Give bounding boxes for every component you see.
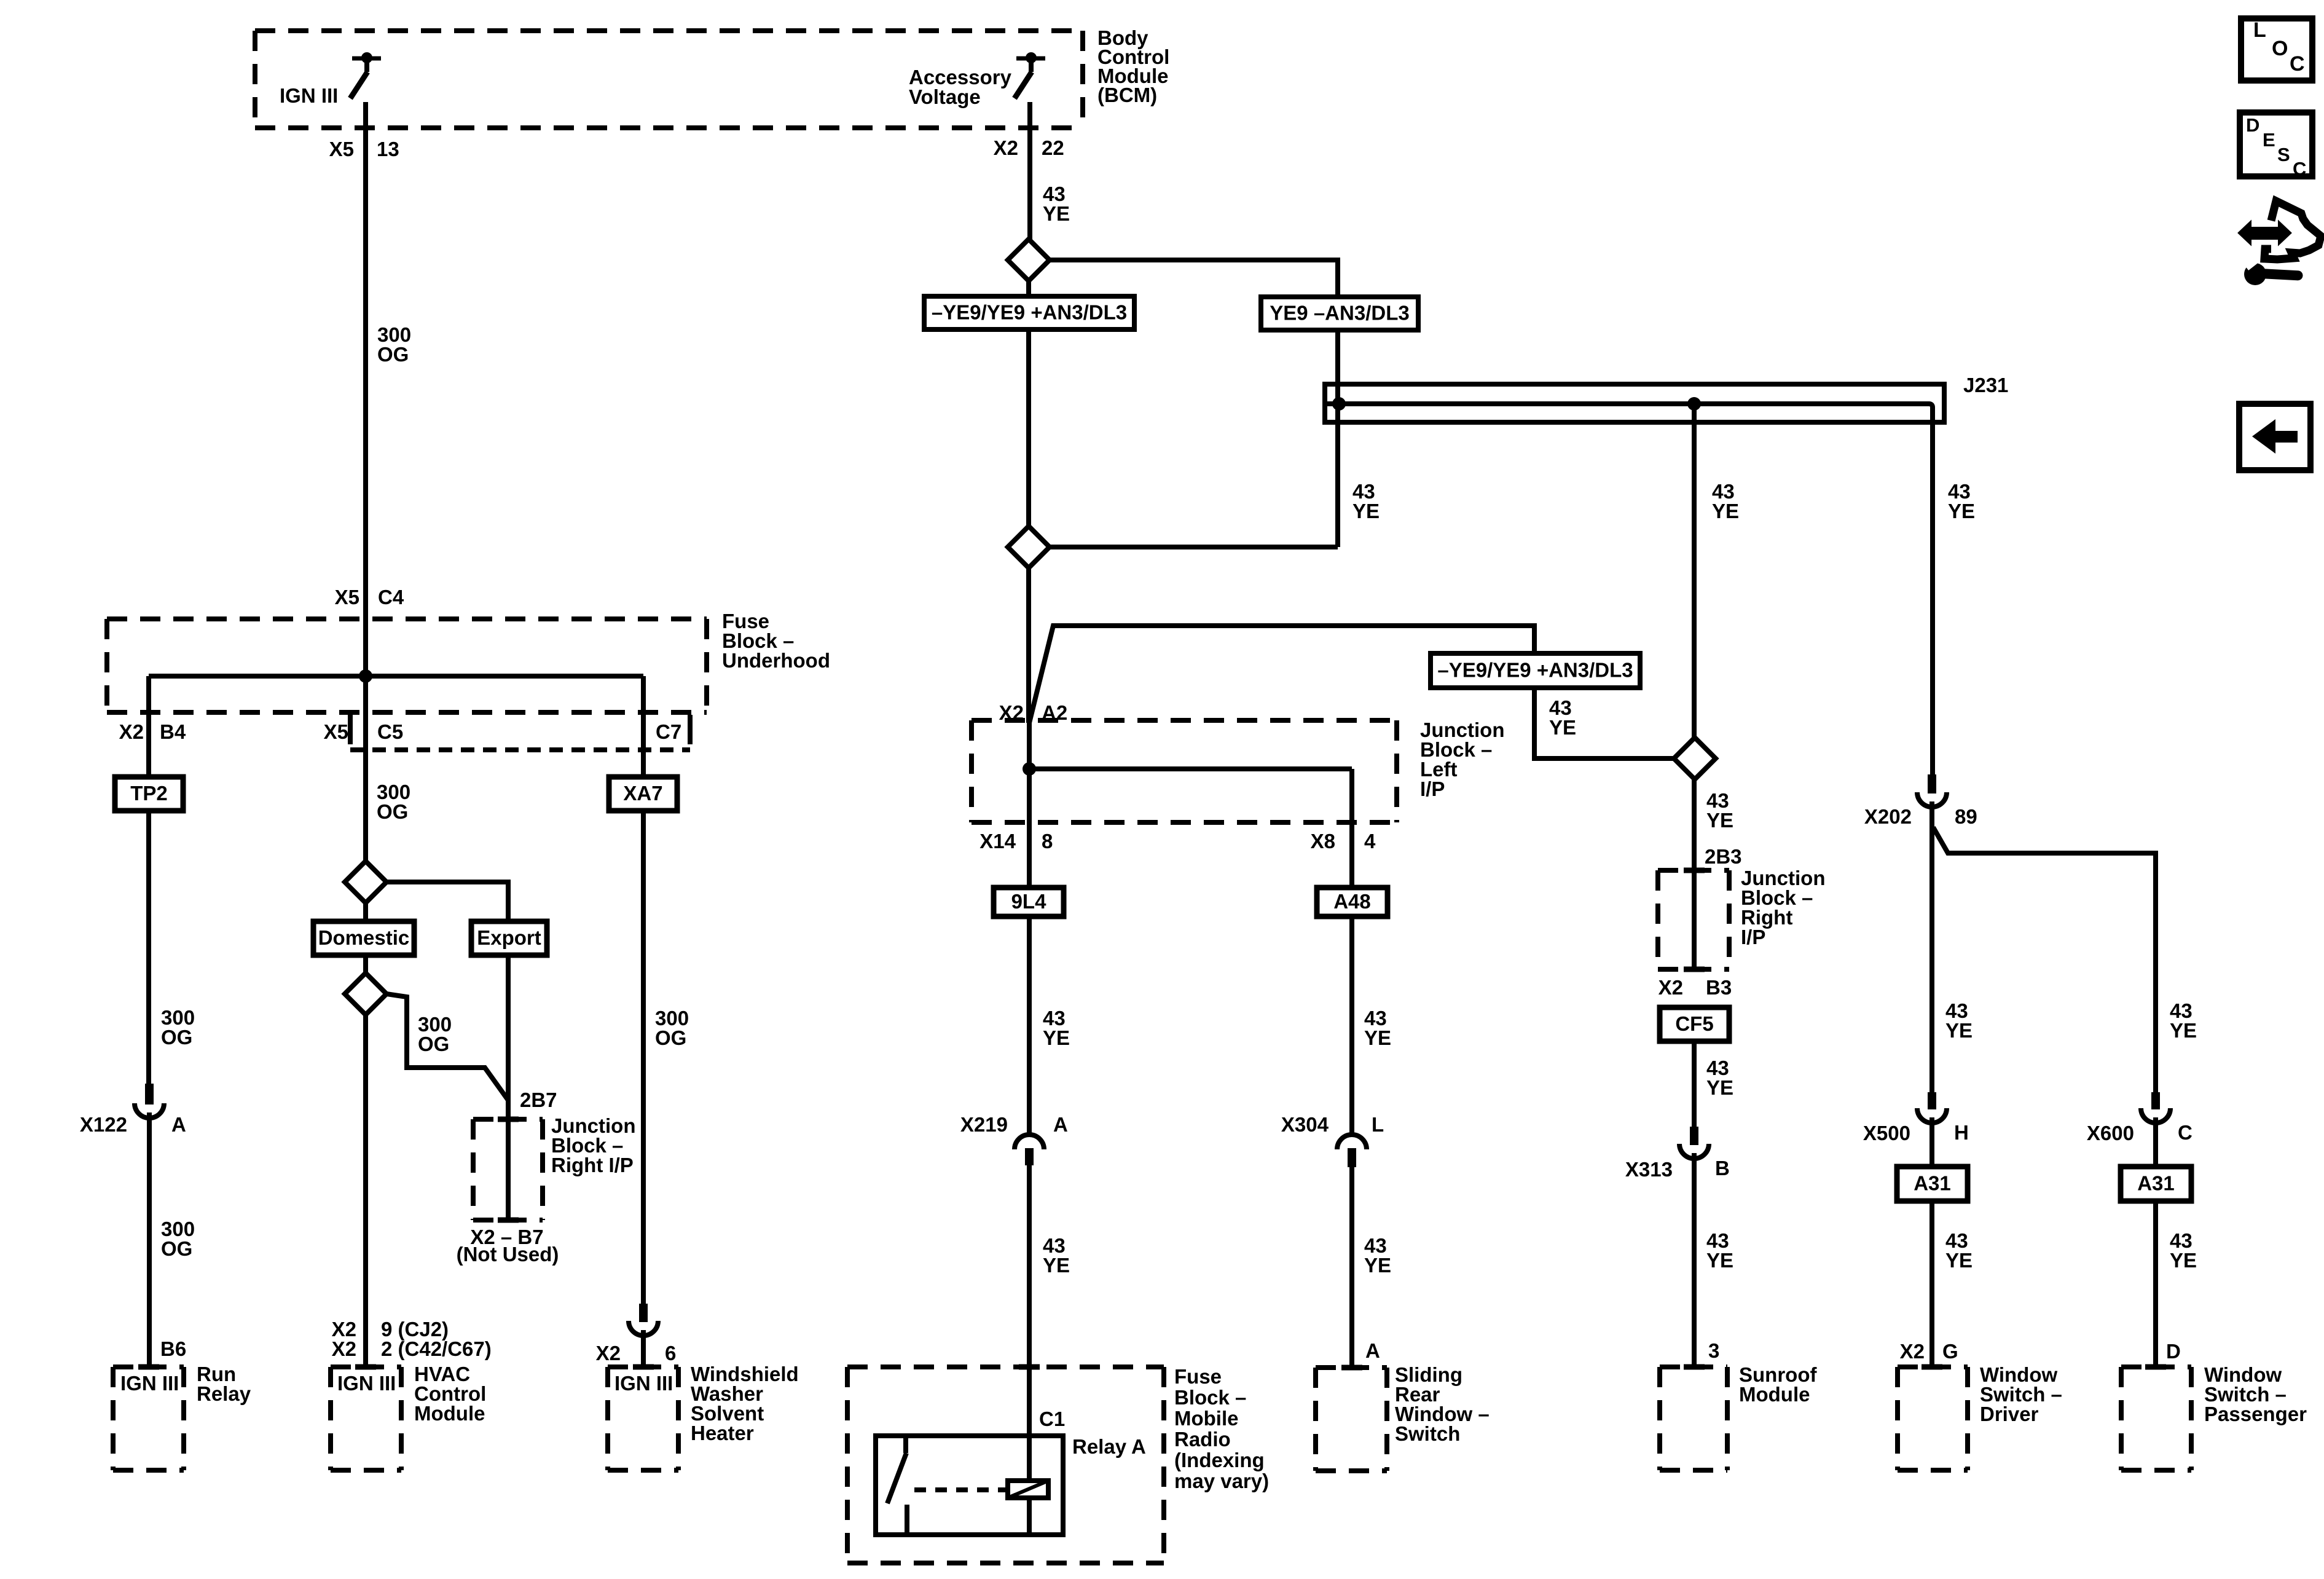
svg-text:YE: YE [2170,1249,2197,1272]
pin tick window switch passenger [2145,1364,2166,1370]
svg-text:B3: B3 [1706,976,1732,999]
svg-text:Switch: Switch [1395,1422,1460,1445]
relay A actuator dashed link [914,1487,1005,1492]
svg-text:Relay: Relay [197,1382,251,1405]
label Run Relay [197,1363,251,1405]
pin tick sunroof [1684,1364,1705,1370]
icon harness routing (double arrow, outline, wrench) [2239,201,2321,285]
svg-text:X219: X219 [960,1113,1008,1136]
wire X122 to Run Relay [147,1112,152,1367]
svg-text:2 (C42/C67): 2 (C42/C67) [381,1337,492,1360]
svg-text:A: A [1365,1339,1380,1362]
label Sliding Rear Window - Switch [1395,1363,1490,1445]
wire X219 to relay A 43 YE [1027,1165,1032,1436]
svg-text:CF5: CF5 [1675,1012,1713,1035]
svg-text:C7: C7 [656,720,681,743]
module box HVAC Control Module [331,1367,401,1470]
svg-text:Mobile: Mobile [1174,1407,1239,1430]
wire CF5 to X313 43 YE [1692,1041,1697,1128]
wire XA7 to X2-6 300 OG [641,811,646,1305]
module box Windshield Washer Solvent Heater [608,1367,678,1470]
fuse A31 (driver) [1897,1167,1968,1201]
svg-text:X2: X2 [596,1342,621,1364]
svg-text:D: D [2166,1340,2181,1363]
label Fuse Block - Underhood [722,610,830,672]
svg-text:X5: X5 [335,586,359,608]
svg-text:C5: C5 [377,720,403,743]
wire label 43 YE [1706,1229,1733,1272]
wire X202 to X500 43 YE [1929,801,1934,1094]
wire [1026,281,1031,296]
svg-text:IGN III: IGN III [337,1372,396,1395]
wire to diamond [1049,545,1338,549]
wire 9L4 to X219 43 YE [1027,916,1032,1135]
svg-text:YE: YE [1549,716,1576,739]
wire TP2 to X122 [146,811,151,1085]
svg-text:X304: X304 [1281,1113,1329,1136]
relay A coil [1008,1481,1048,1498]
label Junction Block - Left I/P [1420,719,1505,800]
svg-text:A: A [1053,1113,1068,1136]
inset box of Fuse Block (X5 C5/C7 section) [350,715,690,750]
svg-text:Module: Module [1739,1383,1810,1406]
connector X219 [1015,1135,1044,1165]
connector X202 [1917,774,1947,807]
svg-text:YE: YE [1712,500,1739,522]
svg-text:A31: A31 [1914,1172,1951,1195]
wire X202 branch to X600 43 YE [1933,827,2156,1094]
svg-text:OG: OG [377,800,408,823]
svg-text:13: 13 [377,138,399,160]
svg-text:A31: A31 [2137,1172,2175,1195]
option box -YE9/YE9 +AN3/DL3 [924,296,1134,329]
wire label 300 OG [418,1013,452,1055]
label Windshield Washer Solvent Heater [691,1363,799,1444]
pin tick 2B7 entry [498,1117,519,1122]
wire Domestic-diamond branch 300 OG [387,994,508,1100]
wire junction block to -YE9 box [1029,626,1534,723]
wire X313 to sunroof module [1692,1153,1697,1367]
svg-text:YE: YE [1364,1026,1391,1049]
svg-text:22: 22 [1042,136,1064,159]
wire label 300 OG [655,1007,689,1049]
svg-text:X122: X122 [80,1113,127,1136]
svg-text:J231: J231 [1963,374,2008,396]
wire A31 to window switch passenger 43 YE [2153,1201,2158,1367]
wire to A48 [1349,769,1354,888]
wire [363,903,368,921]
label Junction Block - Right I/P [1741,867,1826,948]
svg-text:Driver: Driver [1980,1403,2039,1425]
svg-text:Right I/P: Right I/P [551,1154,634,1176]
splice diamond (sunroof path) [1674,738,1716,779]
svg-text:X600: X600 [2087,1122,2134,1144]
icon box back arrow [2239,404,2310,470]
wire label 43 YE [1364,1007,1391,1049]
svg-text:Domestic: Domestic [318,926,410,949]
svg-text:YE: YE [1706,809,1733,832]
svg-text:YE: YE [1706,1076,1733,1099]
svg-text:B: B [1715,1157,1730,1179]
wire X600 to A31 [2153,1117,2158,1167]
wire relay coil to box bottom [1027,1498,1032,1535]
svg-text:X313: X313 [1625,1158,1673,1181]
svg-text:2B3: 2B3 [1705,845,1742,868]
svg-text:IGN III: IGN III [280,84,338,107]
wire diamond to YE9 box [1049,260,1338,297]
wire label 43 YE [2170,1229,2197,1272]
pin tick window switch driver [1922,1364,1942,1370]
wire to junction block left I/P [1026,567,1031,723]
wire to junction block right I/P [1692,779,1697,873]
module box BCM (Body Control Module) [255,31,1083,128]
option box YE9 -AN3/DL3 [1261,297,1418,330]
module box Run Relay [113,1367,184,1470]
svg-text:OG: OG [377,343,409,366]
svg-text:Radio: Radio [1174,1428,1231,1451]
relay A switch contacts [887,1436,907,1535]
pin tick 2B3 exit [1684,967,1705,972]
svg-text:may vary): may vary) [1174,1470,1269,1492]
module box Window Switch - Passenger [2121,1367,2191,1470]
svg-text:X8: X8 [1311,830,1335,853]
svg-text:OG: OG [161,1026,192,1049]
label Fuse Block - Mobile Radio (Indexing may vary) [1174,1365,1269,1492]
svg-text:A48: A48 [1333,890,1371,913]
wire IGN III output 300 OG [363,102,368,861]
svg-text:X2: X2 [994,136,1018,159]
module box Junction Block - Right I/P (2B3) [1658,870,1729,969]
connector X304 [1337,1135,1367,1167]
module box Fuse Block - Mobile Radio [847,1367,1164,1563]
wire A31 to window switch driver 43 YE [1929,1201,1934,1367]
icon box DESC [2240,112,2312,179]
svg-text:A: A [171,1113,186,1136]
wire inside junction block [1692,870,1697,969]
svg-text:6: 6 [665,1342,676,1364]
wire label 43 YE [1364,1234,1391,1277]
option box -YE9/YE9 +AN3/DL3 [1431,653,1640,688]
svg-text:OG: OG [161,1237,192,1260]
svg-text:–YE9/YE9 +AN3/DL3: –YE9/YE9 +AN3/DL3 [932,301,1127,324]
svg-text:YE: YE [1945,1249,1973,1272]
switch Accessory Voltage (in BCM) [1015,52,1045,98]
svg-text:YE: YE [1043,1026,1070,1049]
svg-text:S: S [2277,144,2290,165]
svg-text:YE9 –AN3/DL3: YE9 –AN3/DL3 [1270,302,1409,325]
wire label 300 OG [161,1218,195,1260]
svg-text:Voltage: Voltage [909,85,981,108]
svg-text:YE: YE [1945,1019,1973,1042]
wire label 43 YE [1945,999,1973,1042]
fuse XA7 [609,777,677,811]
wire label 300 OG [161,1006,195,1049]
wire through junction block to 9L4 [1027,723,1032,888]
label Window Switch - Passenger [2204,1363,2307,1425]
label Sunroof Module [1739,1363,1817,1406]
fuse TP2 [115,777,183,811]
wire label 43 YE [1043,1234,1070,1277]
svg-text:TP2: TP2 [130,782,168,805]
wire fuse block internal bus [149,674,643,679]
svg-text:Underhood: Underhood [722,649,830,672]
svg-text:9L4: 9L4 [1011,890,1047,913]
connector X500 [1917,1092,1947,1123]
wire label 43 YE [1712,480,1739,522]
option box Export [471,921,547,955]
pin tick 2B3 entry [1684,868,1705,873]
connector X600 [2141,1092,2170,1123]
wire A48 to X304 43 YE [1349,916,1354,1135]
svg-text:YE: YE [1043,202,1070,225]
svg-text:I/P: I/P [1741,926,1765,948]
svg-text:X2: X2 [1900,1340,1925,1363]
wire YE9 box through J231 [1335,330,1340,547]
svg-text:XA7: XA7 [623,782,662,805]
svg-text:I/P: I/P [1420,778,1445,800]
svg-text:X2: X2 [1659,976,1683,999]
wire label 43 YE [1549,696,1576,739]
svg-text:O: O [2272,37,2288,60]
splice diamond (YE9 branch) [1008,239,1050,281]
wire to windshield washer heater [641,1330,646,1367]
svg-text:IGN III: IGN III [120,1372,179,1395]
wire diamond to Export [387,882,508,921]
wire X500 to A31 [1929,1117,1934,1167]
svg-text:C1: C1 [1039,1408,1065,1430]
module box Sliding Rear Window Switch [1316,1368,1387,1471]
splice diamond (Domestic/Export) [345,861,387,903]
svg-text:G: G [1942,1340,1958,1363]
wire [363,955,368,973]
svg-text:YE: YE [1043,1254,1070,1277]
svg-text:IGN III: IGN III [614,1372,673,1395]
svg-text:3: 3 [1708,1339,1719,1362]
wire label 43 YE [1043,183,1070,225]
connector X313 [1679,1127,1709,1159]
wire to HVAC Control Module 300 OG [363,1015,368,1367]
svg-text:X202: X202 [1864,805,1912,828]
wire junction block internal [1029,766,1352,771]
wire J231 to X202 43 YE [1930,422,1935,776]
wire label 300 OG [377,781,410,823]
module box Junction Block - Right I/P (2B7) [473,1119,543,1220]
svg-text:Fuse: Fuse [1174,1365,1222,1388]
svg-text:X500: X500 [1863,1122,1910,1144]
fuse 9L4 [994,888,1064,916]
svg-text:–YE9/YE9 +AN3/DL3: –YE9/YE9 +AN3/DL3 [1437,659,1633,682]
svg-text:Module: Module [414,1402,485,1425]
wire label 43 YE [1352,480,1380,522]
svg-text:YE: YE [1352,500,1380,522]
pin tick windshield [633,1364,654,1370]
svg-text:Export: Export [477,926,541,949]
splice diamond (J231 return) [1008,526,1050,568]
svg-text:4: 4 [1364,830,1376,853]
junction dot left I/P [1023,762,1036,776]
icon box LOC [2241,18,2312,81]
svg-text:X2: X2 [119,720,144,743]
svg-text:YE: YE [1706,1249,1733,1272]
fuse CF5 [1660,1007,1729,1041]
svg-text:H: H [1954,1121,1969,1144]
switch IGN III (in BCM) [350,52,381,98]
svg-text:(Not Used): (Not Used) [457,1243,559,1266]
module box Window Switch - Driver [1898,1367,1968,1470]
connector X122 [135,1084,164,1118]
svg-text:Block –: Block – [1174,1386,1246,1409]
pin tick sliding switch [1341,1365,1362,1371]
svg-text:X5: X5 [329,138,354,160]
svg-text:L: L [2253,18,2266,42]
svg-text:L: L [1372,1113,1384,1136]
wire label 43 YE [1706,789,1733,832]
svg-text:YE: YE [1948,500,1975,522]
svg-text:(Indexing: (Indexing [1174,1449,1265,1471]
module box Junction Block - Left I/P [972,720,1397,822]
wire label 43 YE [1948,480,1975,522]
splice pack J231 [1325,384,1944,425]
connector windshield washer heater [629,1304,658,1336]
wire Export to junction block 2B7 [506,955,511,1122]
module box Sunroof Module [1660,1367,1727,1470]
label Window Switch - Driver [1980,1363,2062,1425]
svg-text:C: C [2293,158,2306,179]
splice diamond (HVAC branch) [345,973,387,1015]
pin tick 2B7 exit [498,1218,519,1223]
pin tick HVAC [355,1364,376,1370]
svg-text:B4: B4 [160,720,186,743]
wire inside junction block [506,1119,511,1220]
fuse A31 (passenger) [2121,1167,2191,1201]
svg-text:Relay A: Relay A [1072,1435,1146,1458]
svg-text:Heater: Heater [691,1422,754,1444]
wire to XA7 [641,676,646,779]
option box Domestic [313,921,414,955]
label HVAC Control Module [414,1363,486,1425]
wire J231 to diamond 43 YE [1692,404,1697,738]
svg-text:OG: OG [418,1033,449,1055]
wire -YE9 box to diamond 43 YE [1534,688,1673,758]
svg-text:Passenger: Passenger [2204,1403,2307,1425]
svg-text:X14: X14 [979,830,1016,853]
junction dot in fuse block [359,669,372,683]
wire X304 to sliding rear window switch 43 YE [1349,1167,1354,1368]
svg-text:8: 8 [1042,830,1053,853]
svg-text:89: 89 [1955,805,1977,828]
svg-text:B6: B6 [160,1337,186,1360]
svg-text:OG: OG [655,1026,686,1049]
svg-text:YE: YE [1364,1254,1391,1277]
wire to TP2 [146,676,151,779]
wire label 43 YE [2170,999,2197,1042]
wire relay internal to coil [1027,1436,1032,1481]
module box Fuse Block - Underhood [107,619,707,712]
pin tick C1 [1019,1364,1040,1370]
junction dot J231 middle [1687,397,1701,411]
wire label 43 YE [1706,1057,1733,1099]
svg-text:E: E [2263,129,2275,151]
svg-text:C4: C4 [378,586,404,608]
svg-text:C: C [2178,1121,2192,1144]
wire Accessory Voltage output 43 YE [1027,102,1032,240]
svg-text:X5: X5 [324,720,348,743]
fuse A48 [1317,888,1388,916]
relay A box [876,1436,1063,1535]
wire label 300 OG [377,323,411,366]
label Junction Block - Right I/P [551,1114,636,1176]
junction dot J231 left [1332,397,1346,411]
svg-text:(BCM): (BCM) [1097,84,1157,106]
wire label 43 YE [1043,1007,1070,1049]
wire [1026,329,1031,527]
svg-text:YE: YE [2170,1019,2197,1042]
pin tick B6 [138,1364,159,1370]
svg-text:C: C [2290,52,2305,76]
wire label 43 YE [1945,1229,1973,1272]
svg-text:2B7: 2B7 [520,1089,557,1111]
svg-text:D: D [2246,114,2259,136]
svg-text:X2: X2 [332,1337,356,1360]
